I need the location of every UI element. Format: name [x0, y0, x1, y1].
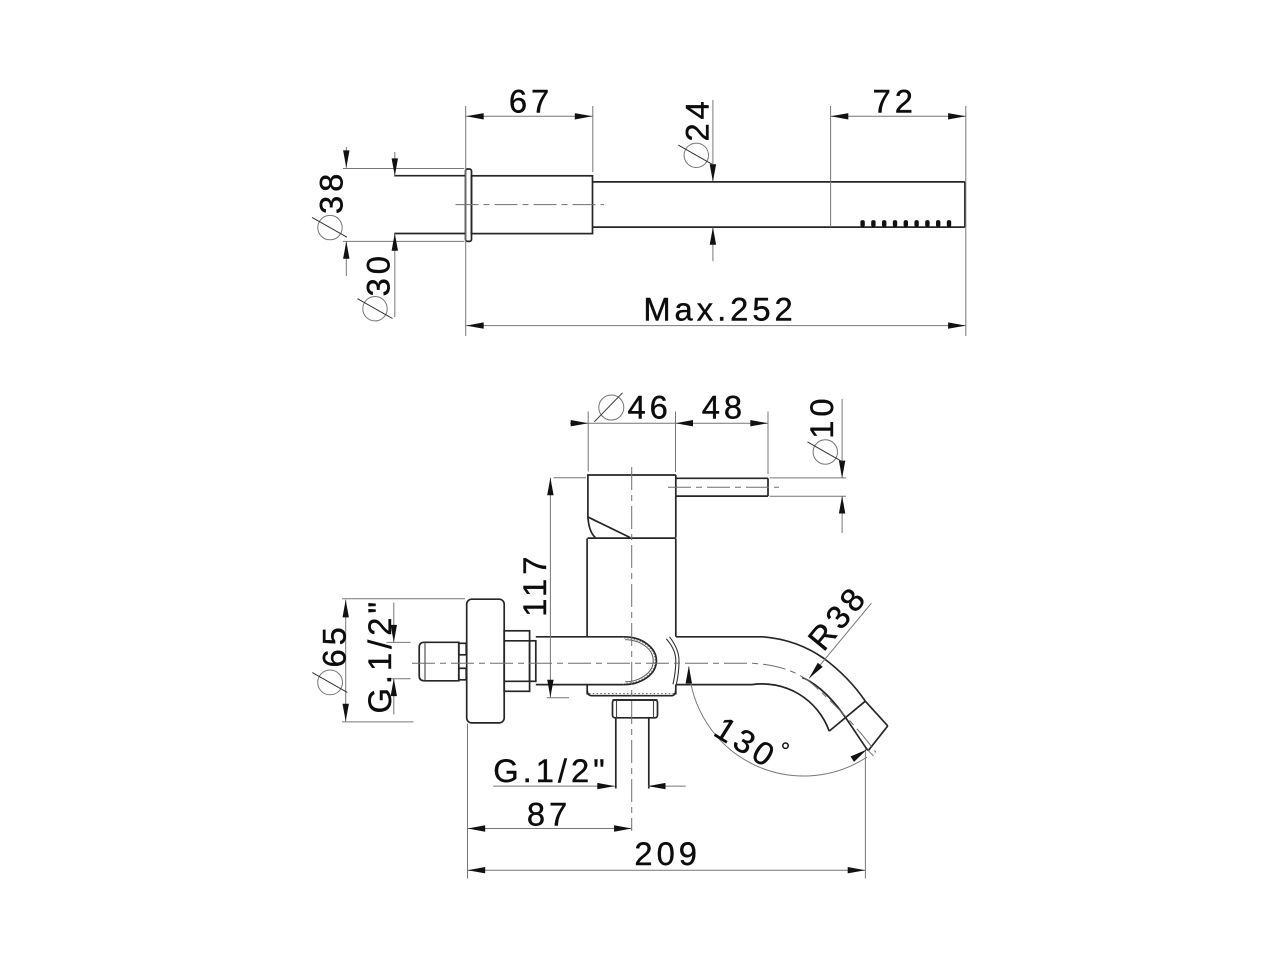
dimension Max.252: [466, 291, 966, 329]
svg-text:65: 65: [315, 623, 352, 667]
dimension 67: [466, 83, 593, 120]
collar: [530, 641, 536, 682]
svg-text:209: 209: [634, 835, 701, 872]
dimension 117: [516, 478, 586, 698]
svg-text:G.1/2": G.1/2": [493, 752, 609, 789]
body bottom skirt: [587, 691, 676, 696]
spout top edge: [676, 637, 888, 726]
svg-text:87: 87: [527, 796, 571, 833]
mixer barrel body: [587, 539, 676, 695]
mixer top cap: [588, 475, 676, 538]
extension line left 87/209: [467, 724, 469, 879]
extension line left (67 / Max.252): [465, 106, 467, 336]
wall connection tube: [536, 637, 657, 685]
lever rod centerline: [668, 486, 779, 488]
dimension diameter 30: [358, 152, 399, 321]
svg-text:10: 10: [803, 394, 840, 438]
dimension 209: [468, 835, 866, 874]
extension line right of 67: [592, 106, 594, 172]
spout nose bottom edge: [802, 678, 868, 751]
radius leader R38: [800, 578, 874, 680]
angle arc 130: [686, 666, 869, 776]
svg-text:Max.252: Max.252: [643, 291, 796, 328]
hex outlet under body: [613, 700, 658, 718]
svg-text:72: 72: [873, 83, 917, 120]
spout end band: [829, 701, 865, 731]
dimension 87: [468, 796, 632, 833]
spray nozzles: [860, 220, 951, 227]
dimension 72: [831, 83, 966, 120]
dimension G.1/2 vertical: [361, 598, 411, 715]
svg-text:38: 38: [313, 170, 350, 214]
extension line right (72 / Max.252): [965, 106, 967, 336]
dimension diameter 65: [312, 599, 465, 722]
wall flange: [467, 599, 505, 723]
hand shower head body: [472, 176, 593, 234]
horizontal centerline and spout centerline: [412, 663, 876, 752]
hand shower tube: [593, 182, 965, 227]
outlet pipe: [616, 718, 649, 789]
dimension G.1/2 horizontal: [493, 752, 686, 789]
hex nut: [504, 631, 529, 692]
svg-text:48: 48: [702, 389, 746, 426]
dimension diameter 38: [312, 147, 464, 276]
spout tip tick: [868, 750, 874, 756]
dimension diameter 46: [571, 389, 693, 473]
nipple neck rings: [459, 643, 466, 655]
lever edge diagonal: [588, 517, 630, 537]
extension line right 209: [864, 749, 866, 879]
lever rod: [676, 478, 768, 496]
dimension 48: [702, 389, 768, 475]
svg-text:46: 46: [628, 389, 672, 426]
svg-text:24: 24: [679, 97, 716, 141]
extension line left of 72: [830, 106, 832, 227]
svg-text:G.1/2": G.1/2": [361, 598, 398, 714]
threaded nipple G.1/2: [419, 642, 459, 681]
svg-text:117: 117: [516, 553, 553, 617]
hand shower flange ring: [466, 169, 472, 241]
svg-text:67: 67: [509, 83, 553, 120]
centerline of hand shower: [456, 204, 605, 206]
dimension diameter 24: [678, 97, 716, 261]
hand shower grip: [394, 176, 465, 234]
dimension diameter 10: [770, 394, 847, 533]
vertical centerline: [631, 467, 633, 831]
spout bottom edge R38 bend: [676, 684, 829, 731]
svg-text:30: 30: [359, 252, 396, 296]
dimension diameter 46 and 48 line: [570, 422, 768, 424]
spout socket arcs: [666, 637, 679, 685]
cap joint line: [588, 537, 676, 539]
spout end face: [868, 726, 888, 751]
